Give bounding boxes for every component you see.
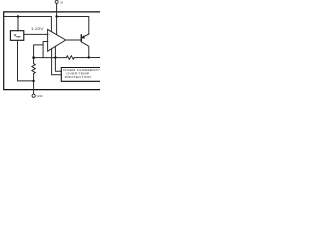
svg-text:GND: GND	[37, 94, 43, 98]
wire IN terminal drop	[56, 3, 58, 34]
wire R2 to GND terminal	[33, 74, 35, 95]
transistor Q1 emitter arrow	[82, 35, 85, 38]
transistor Q1 base bar	[80, 34, 82, 42]
wire feedback input	[43, 42, 48, 58]
wire IN rail right segment	[57, 17, 89, 35]
node dot rail-Vref	[17, 15, 19, 17]
resistor R1 horizontal zigzag	[66, 56, 74, 60]
resistor R2 vertical zigzag	[32, 64, 35, 74]
transistor Q1 collector	[82, 42, 89, 58]
svg-text:-: -	[49, 41, 50, 44]
wire divider horizontal	[34, 57, 67, 59]
node dot divider	[32, 56, 35, 59]
wire R2 top	[33, 58, 35, 64]
wire Vref ground	[18, 40, 34, 81]
wire protection A from op-amp	[52, 49, 62, 75]
protection block box	[61, 68, 100, 82]
node dot rail-IN	[55, 15, 57, 17]
terminal IN circle	[55, 0, 58, 3]
wire Vref to op-amp	[24, 33, 48, 35]
node dot OUT	[88, 56, 90, 58]
node dot Vref gnd join	[32, 80, 34, 82]
transistor Q1 emitter	[82, 34, 89, 38]
wire protection B from op-amp	[55, 46, 61, 71]
node feedback loop rect	[34, 45, 44, 58]
wire op-amp output	[66, 39, 81, 41]
terminal GND circle	[32, 94, 35, 97]
wire Vref supply drop	[17, 17, 19, 31]
wire R1 to OUT	[74, 57, 100, 59]
IC outline box	[4, 12, 100, 90]
wire IN rail left segment	[4, 17, 52, 32]
resistor box Vref	[10, 31, 23, 41]
svg-text:1.22V: 1.22V	[31, 26, 44, 31]
op-amp U1	[48, 29, 66, 51]
svg-text:PROTECTION: PROTECTION	[65, 75, 91, 79]
svg-text:IN: IN	[60, 0, 63, 4]
node dot sense B	[54, 56, 56, 58]
